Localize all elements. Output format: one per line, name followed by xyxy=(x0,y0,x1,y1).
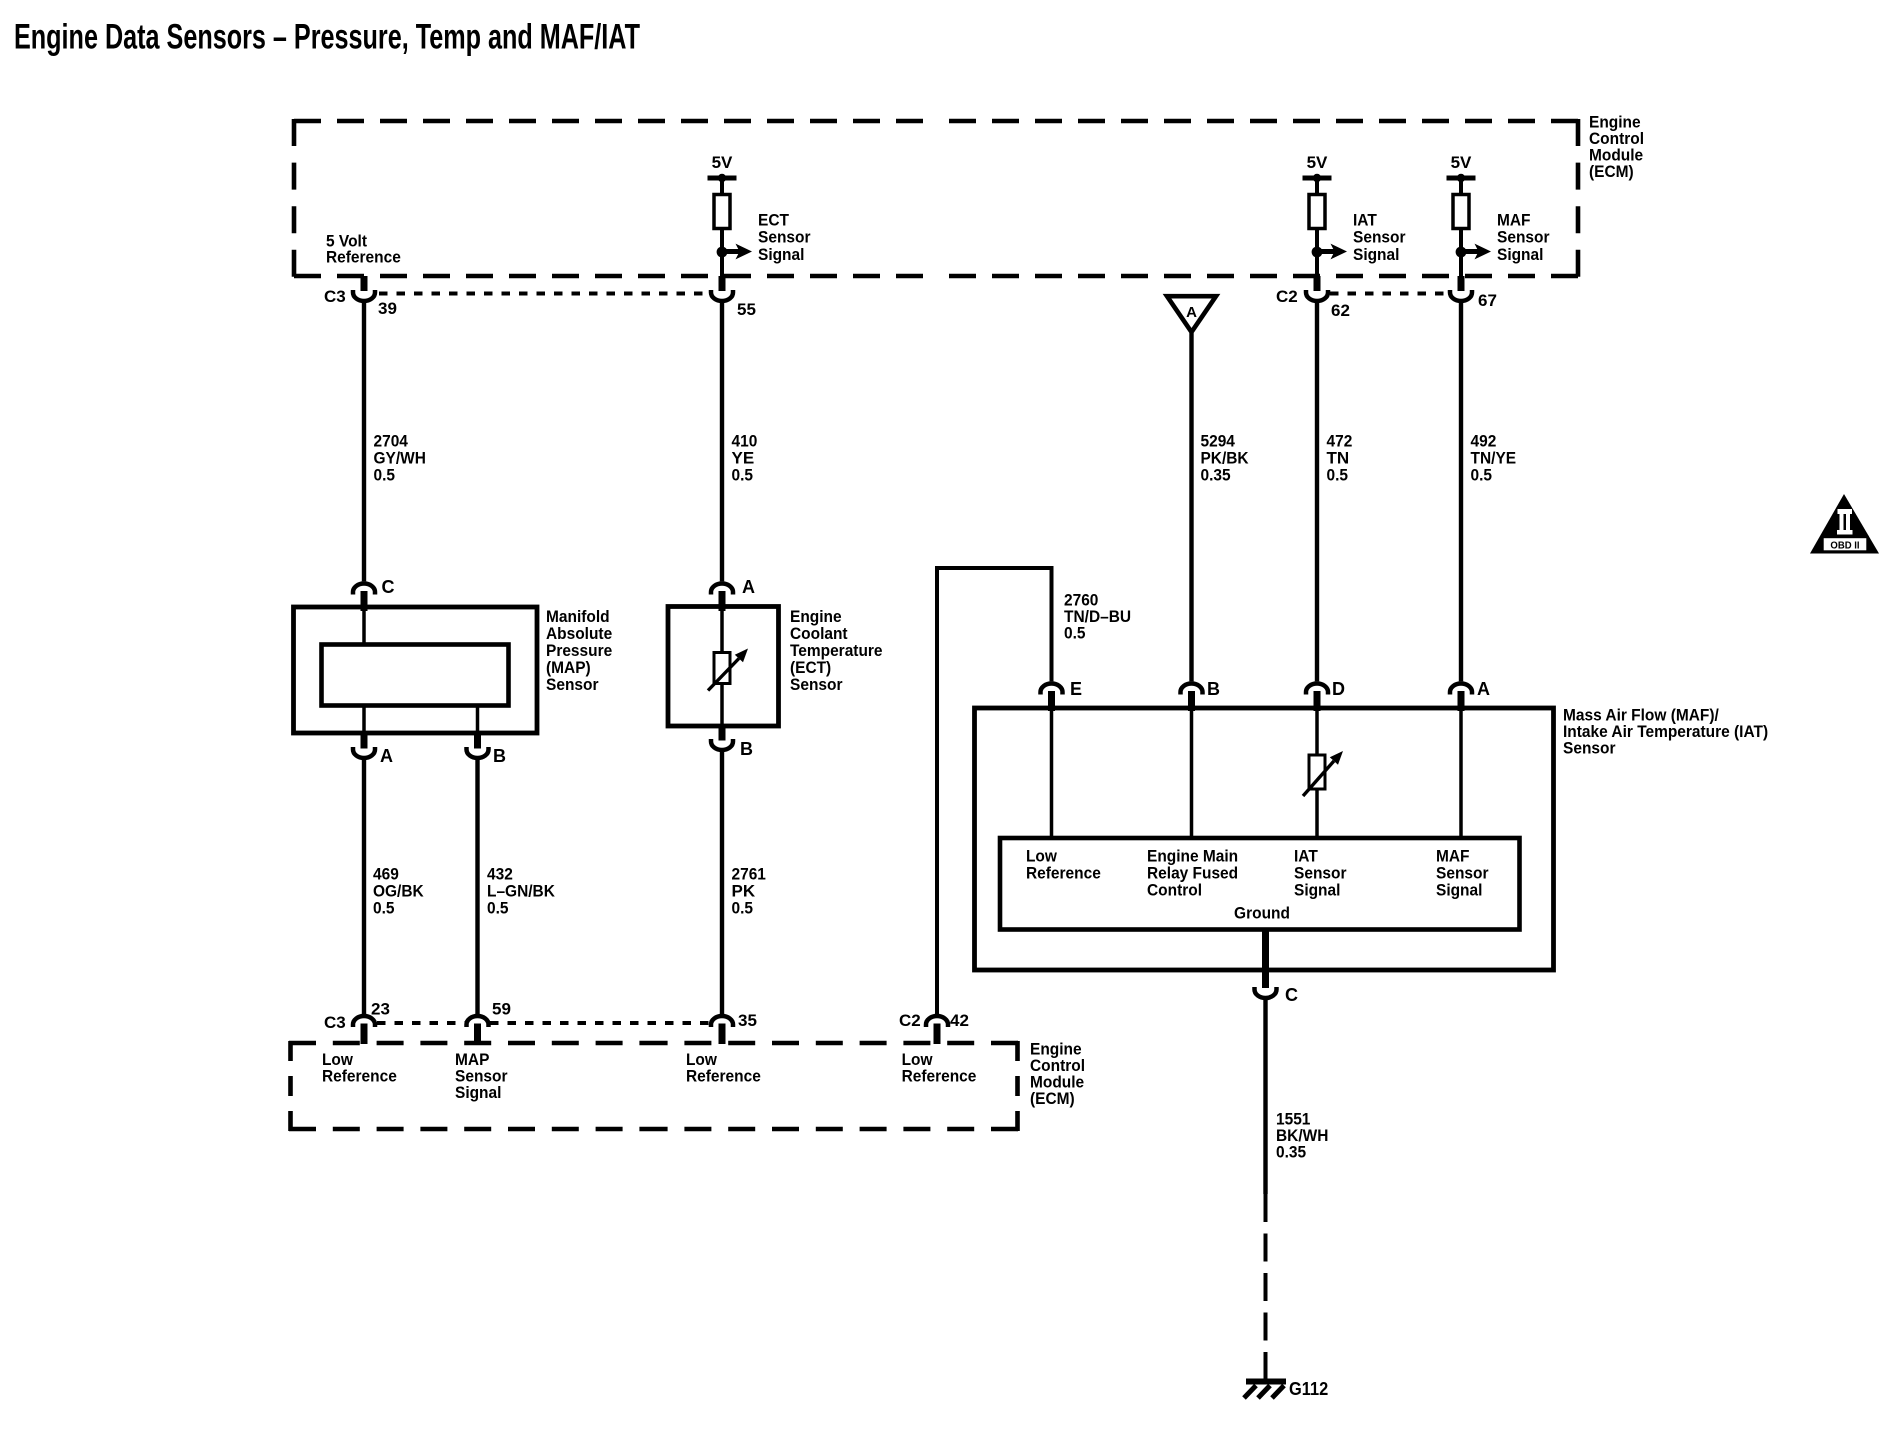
svg-text:Signal: Signal xyxy=(1497,245,1543,264)
svg-text:OBD II: OBD II xyxy=(1830,540,1859,552)
svg-text:C3: C3 xyxy=(324,287,346,306)
svg-text:MAF: MAF xyxy=(1497,211,1531,230)
svg-text:0.5: 0.5 xyxy=(373,899,395,918)
svg-text:0.5: 0.5 xyxy=(374,466,396,485)
svg-text:0.5: 0.5 xyxy=(1064,624,1086,643)
svg-text:23: 23 xyxy=(371,1000,390,1019)
svg-text:C: C xyxy=(382,577,395,597)
svg-text:A: A xyxy=(1186,304,1197,321)
svg-text:Signal: Signal xyxy=(758,245,804,264)
svg-text:39: 39 xyxy=(378,299,397,318)
svg-text:0.5: 0.5 xyxy=(1327,466,1349,485)
svg-text:B: B xyxy=(740,739,753,759)
svg-text:0.5: 0.5 xyxy=(487,899,509,918)
svg-text:0.5: 0.5 xyxy=(1471,466,1493,485)
svg-text:5V: 5V xyxy=(712,153,733,172)
svg-text:Reference: Reference xyxy=(686,1066,761,1085)
svg-text:67: 67 xyxy=(1478,291,1497,310)
svg-text:5V: 5V xyxy=(1451,153,1472,172)
svg-text:59: 59 xyxy=(492,1000,511,1019)
svg-text:Engine Data Sensors – Pressure: Engine Data Sensors – Pressure, Temp and… xyxy=(14,18,640,57)
svg-text:C: C xyxy=(1285,985,1298,1005)
svg-text:ECT: ECT xyxy=(758,211,790,230)
svg-text:(ECM): (ECM) xyxy=(1030,1089,1075,1108)
svg-text:Ground: Ground xyxy=(1234,904,1290,923)
svg-text:Control: Control xyxy=(1147,881,1202,900)
svg-text:C2: C2 xyxy=(899,1011,921,1030)
svg-text:Sensor: Sensor xyxy=(546,675,599,694)
svg-text:Reference: Reference xyxy=(1026,864,1101,883)
svg-text:Signal: Signal xyxy=(455,1083,501,1102)
svg-text:D: D xyxy=(1332,679,1345,699)
svg-text:A: A xyxy=(742,577,755,597)
svg-text:Reference: Reference xyxy=(902,1066,977,1085)
svg-text:42: 42 xyxy=(950,1011,969,1030)
svg-text:0.35: 0.35 xyxy=(1276,1143,1306,1162)
svg-text:C2: C2 xyxy=(1276,287,1298,306)
svg-text:Signal: Signal xyxy=(1436,881,1482,900)
svg-text:Reference: Reference xyxy=(326,248,401,267)
svg-text:Sensor: Sensor xyxy=(1497,228,1550,247)
svg-text:(ECM): (ECM) xyxy=(1589,162,1634,181)
svg-text:E: E xyxy=(1070,679,1082,699)
svg-text:0.35: 0.35 xyxy=(1201,466,1231,485)
svg-text:55: 55 xyxy=(737,300,756,319)
svg-text:Signal: Signal xyxy=(1294,881,1340,900)
svg-text:35: 35 xyxy=(738,1011,757,1030)
svg-text:Reference: Reference xyxy=(322,1066,397,1085)
svg-text:IAT: IAT xyxy=(1353,211,1377,230)
svg-text:Sensor: Sensor xyxy=(1563,739,1616,758)
svg-text:Signal: Signal xyxy=(1353,245,1399,264)
svg-text:Sensor: Sensor xyxy=(790,675,843,694)
svg-text:B: B xyxy=(493,746,506,766)
svg-text:G112: G112 xyxy=(1289,1379,1328,1399)
svg-text:A: A xyxy=(380,746,393,766)
svg-text:5V: 5V xyxy=(1307,153,1328,172)
svg-text:Sensor: Sensor xyxy=(1353,228,1406,247)
svg-text:62: 62 xyxy=(1331,301,1350,320)
svg-text:C3: C3 xyxy=(324,1013,346,1032)
svg-text:B: B xyxy=(1207,679,1220,699)
svg-text:Sensor: Sensor xyxy=(758,228,811,247)
svg-text:A: A xyxy=(1477,679,1490,699)
svg-text:0.5: 0.5 xyxy=(732,466,754,485)
svg-text:0.5: 0.5 xyxy=(732,899,754,918)
